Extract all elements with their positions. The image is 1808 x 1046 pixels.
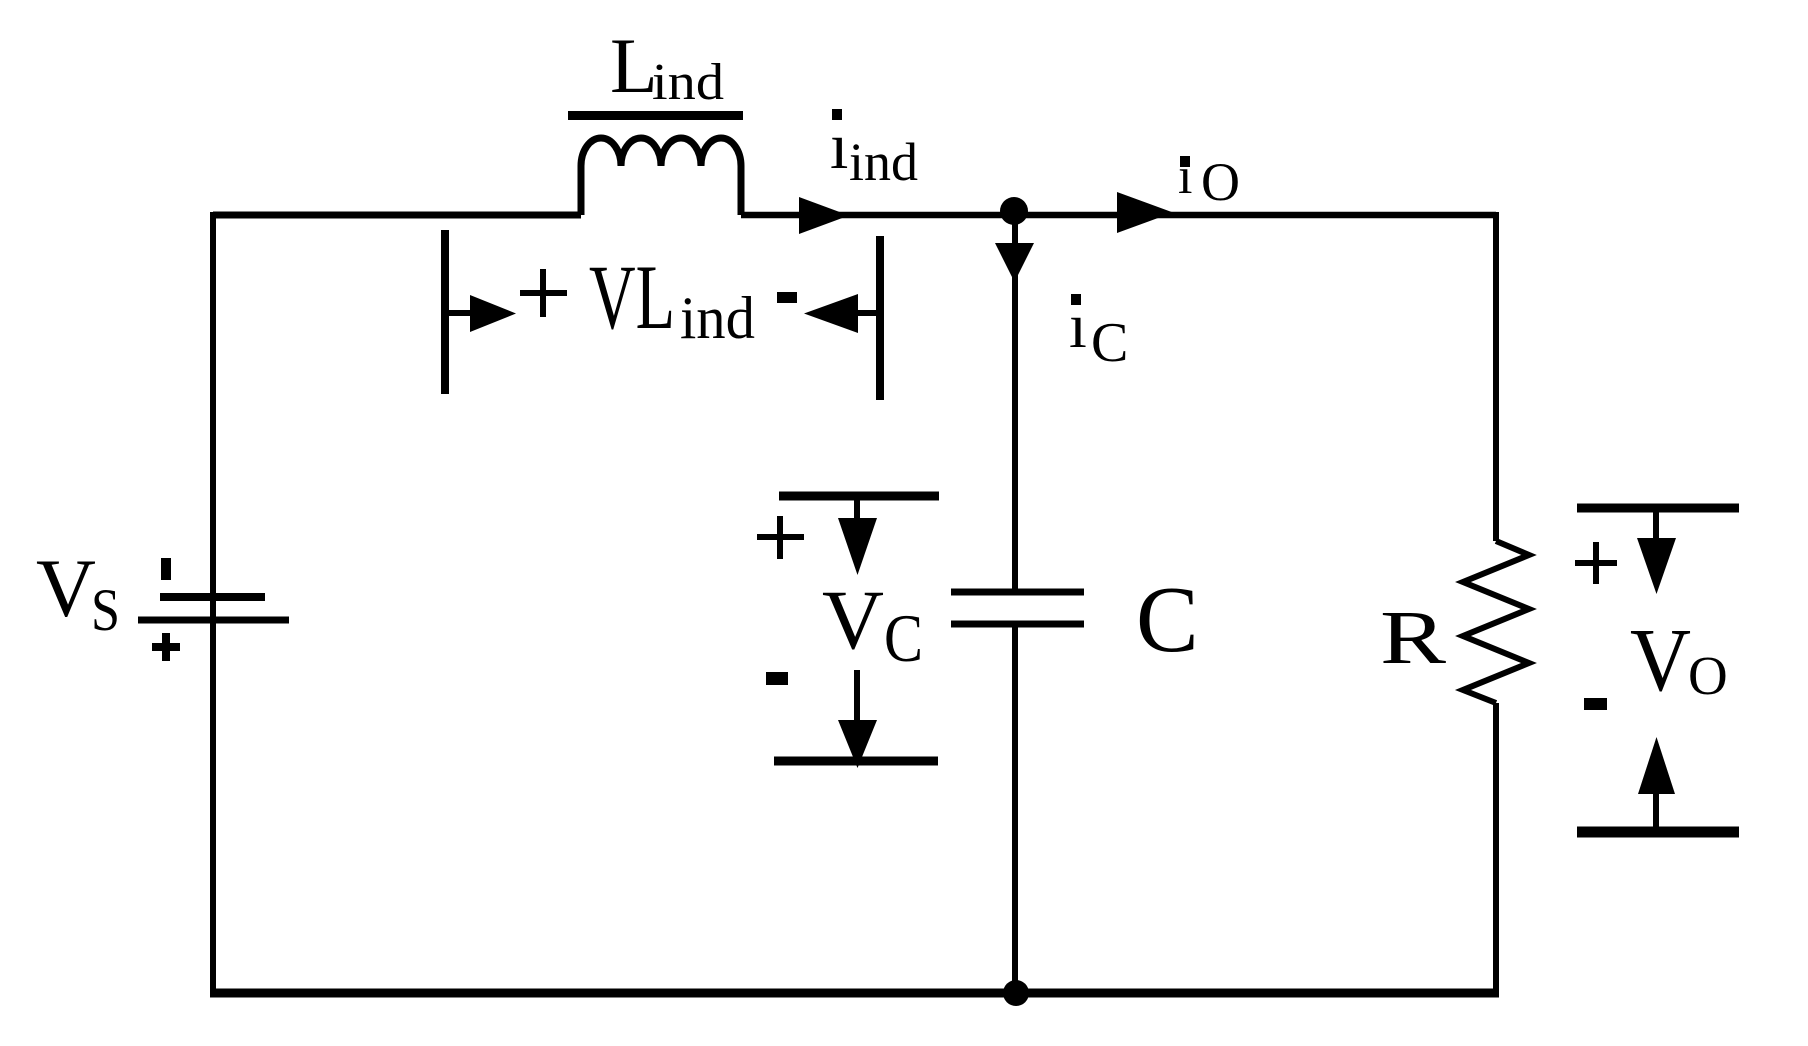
- wire top-left horizontal: [213, 212, 581, 219]
- svg-text:R: R: [1380, 596, 1446, 680]
- label VO: [1630, 611, 1728, 710]
- svg-text:S: S: [91, 577, 120, 643]
- svg-text:ind: ind: [652, 54, 724, 111]
- VO annotation top bar: [1577, 504, 1739, 513]
- VLind minus sign: [777, 292, 797, 303]
- capacitor C top plate: [951, 589, 1084, 596]
- svg-text:VL: VL: [589, 246, 675, 348]
- VLind arrow right-pointing shaft: [445, 310, 472, 316]
- svg-text:V: V: [822, 573, 884, 667]
- node dot bottom junction: [1003, 980, 1029, 1006]
- battery source VS short plate: [160, 593, 265, 601]
- VC top arrow head (down): [838, 518, 877, 575]
- VO minus sign: [1584, 698, 1607, 710]
- svg-text:C: C: [884, 600, 923, 676]
- label i_C: [1069, 290, 1128, 374]
- inductor Lind: [581, 138, 741, 215]
- VO top arrow shaft: [1653, 508, 1659, 541]
- battery minus tick: [161, 558, 171, 580]
- label VLind: [589, 246, 755, 351]
- wire capacitor branch lower: [1012, 624, 1018, 993]
- battery source VS long plate: [138, 617, 289, 624]
- arrowhead current i_C: [995, 243, 1034, 282]
- VO plus sign: [1575, 542, 1617, 584]
- VLind annotation left bar: [441, 230, 449, 394]
- resistor R zigzag: [1463, 541, 1529, 703]
- wire left vertical: [210, 212, 216, 993]
- VO bottom arrow head (up): [1638, 737, 1675, 794]
- svg-text:O: O: [1201, 152, 1240, 212]
- label i_ind: [830, 109, 918, 192]
- VLind plus sign: [520, 269, 567, 317]
- svg-text:L: L: [610, 22, 658, 109]
- node dot top junction: [1000, 197, 1028, 225]
- svg-text:C: C: [1136, 568, 1199, 672]
- VC annotation bottom bar: [774, 757, 938, 766]
- underline of Lind label: [568, 111, 743, 120]
- label VS: [36, 542, 120, 643]
- VC minus sign: [766, 672, 788, 685]
- svg-text:ı: ı: [830, 110, 848, 183]
- battery plus sign: [152, 633, 180, 661]
- VC annotation top bar: [779, 492, 939, 501]
- VO bottom arrow shaft: [1653, 791, 1659, 832]
- svg-text:ind: ind: [849, 132, 918, 192]
- label Lind: [610, 22, 724, 111]
- svg-text:C: C: [1091, 312, 1128, 374]
- svg-text:ind: ind: [680, 285, 755, 351]
- VLind arrow left-pointing head: [804, 294, 858, 333]
- arrowhead current i_O: [1117, 192, 1173, 233]
- wire right vertical upper: [1493, 212, 1499, 541]
- VLind arrow right-pointing head: [470, 295, 516, 332]
- svg-text:V: V: [1630, 611, 1691, 710]
- wire capacitor branch upper: [1012, 214, 1018, 592]
- VC plus sign: [757, 516, 804, 559]
- label i_O: [1178, 148, 1240, 212]
- arrowhead current i_ind: [799, 197, 849, 234]
- label VC: [822, 573, 923, 676]
- capacitor C bottom plate: [951, 621, 1084, 628]
- wire bottom horizontal: [210, 989, 1499, 998]
- VLind annotation right bar: [876, 236, 884, 400]
- VLind arrow left-pointing shaft: [855, 310, 880, 316]
- VC top arrow shaft: [854, 496, 860, 522]
- svg-text:V: V: [36, 542, 96, 634]
- VC bottom arrow shaft: [854, 670, 860, 724]
- wire right vertical lower: [1493, 703, 1499, 993]
- wire top-middle horizontal: [741, 212, 1496, 219]
- VO annotation bottom bar: [1577, 827, 1739, 838]
- svg-text:O: O: [1688, 645, 1728, 706]
- VO top arrow head (down): [1637, 538, 1676, 594]
- VC bottom arrow head (down): [838, 720, 877, 768]
